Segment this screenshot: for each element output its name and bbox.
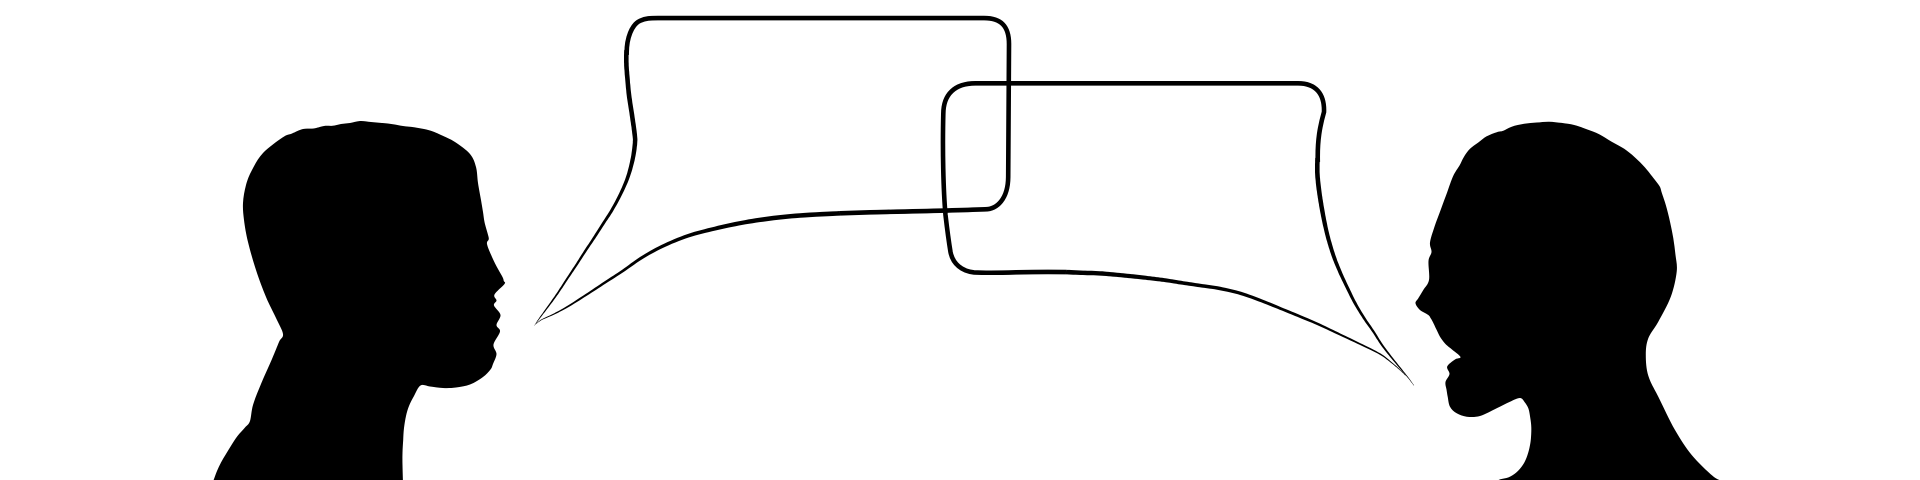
right bubble bottom edge + tail (tapered) — [1066, 270, 1406, 376]
left head silhouette (man facing right) — [213, 121, 506, 480]
left bubble left edge + tail to speaker (tapered) — [534, 50, 637, 326]
right speech bubble: right edge top, corners, top edge, left edge, bottom edge start (stroked) — [943, 83, 1324, 272]
right head silhouette (man facing left, mouth open) — [1415, 122, 1727, 480]
right bubble right edge + tail to speaker (tapered) — [1315, 158, 1414, 386]
left bubble bottom edge + tail (tapered) — [536, 211, 840, 324]
left speech bubble: top edge, corners, right edge, start of bottom edge (stroked) — [627, 18, 1009, 213]
